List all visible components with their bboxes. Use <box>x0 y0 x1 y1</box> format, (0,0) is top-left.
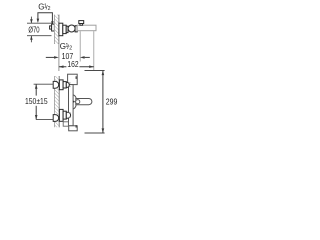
label G 1/2 (top) <box>38 3 50 12</box>
top cap edge tick <box>75 76 77 79</box>
screw dot on spout throat <box>73 101 75 103</box>
dimension Ø70 extent lines <box>27 17 52 43</box>
dimension 150±15 line <box>35 84 37 95</box>
label 162 <box>66 63 79 68</box>
spout throat bottom fillet <box>73 105 76 109</box>
lower cone connector <box>66 112 70 118</box>
spout tube (top view) <box>77 25 96 31</box>
dimension Ø70 arrows <box>30 19 33 23</box>
lower supply elbow behind wall <box>53 115 59 122</box>
shower outlet cap (top view) <box>79 21 84 24</box>
wall section (top view, hatched) <box>54 15 59 44</box>
diverter knob on spout <box>76 100 80 104</box>
hose union box below lower nut <box>63 122 68 126</box>
svg-text:Ø70: Ø70 <box>28 24 39 34</box>
mixer body top cap (side view) <box>68 74 78 84</box>
thermostat knob circle (top view) <box>68 25 75 32</box>
svg-text:299: 299 <box>106 97 118 107</box>
label G 1/2 (second) <box>60 42 72 51</box>
svg-text:162: 162 <box>67 59 78 69</box>
upper nut <box>63 82 66 88</box>
upper supply elbow behind wall <box>53 81 58 88</box>
nut (top view) <box>63 25 66 33</box>
extension line from outlet stem down <box>79 31 81 61</box>
spout throat top fillet <box>73 95 76 99</box>
svg-text:150±15: 150±15 <box>25 97 48 106</box>
spout (side view) <box>76 99 92 105</box>
wall face extension line down to dimension rows <box>58 44 60 71</box>
shower outlet stem (top view) <box>80 24 83 26</box>
mixer body bottom cap (side view) <box>69 126 78 131</box>
dimension 299 extension lines <box>85 70 105 72</box>
body inlet ticks <box>69 83 71 118</box>
upper cone connector <box>66 82 69 87</box>
upper escutcheon <box>59 80 63 90</box>
lower nut <box>63 111 66 119</box>
dimension 107 <box>46 56 90 58</box>
collar after knob (top view) <box>75 26 77 32</box>
leader bracket for G1/2 (top) <box>38 13 53 24</box>
wall section (side view, hatched) <box>54 76 59 127</box>
dimension 299 line <box>102 71 104 134</box>
ring (top view) <box>66 26 68 32</box>
dimension 150±15 extension lines <box>34 83 54 85</box>
mixer body tube (side view) <box>69 85 74 126</box>
escutcheon (top view) <box>59 23 63 36</box>
bottom cap edge tick <box>75 125 77 128</box>
extension line from spout tip down <box>93 31 95 71</box>
union elbow behind wall (top view) <box>50 24 55 31</box>
lower escutcheon <box>59 109 63 121</box>
dimension 162 <box>59 66 94 68</box>
svg-text:2: 2 <box>48 6 51 12</box>
